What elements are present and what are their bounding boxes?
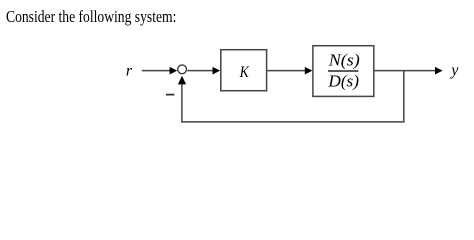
wire: input line bbox=[142, 70, 171, 72]
minus sign bbox=[166, 94, 174, 96]
summing junction bbox=[178, 65, 187, 74]
block N(s)/D(s) bbox=[313, 46, 374, 97]
wire: feedback vertical up to summing junction bbox=[181, 83, 183, 122]
wire: feedback branch vertical bbox=[403, 70, 405, 123]
svg-text:r: r bbox=[126, 63, 133, 80]
svg-text:N(s): N(s) bbox=[328, 50, 360, 69]
arrowhead into block K bbox=[213, 67, 221, 75]
fraction bar bbox=[328, 70, 358, 72]
arrowhead into summing junction bbox=[170, 67, 178, 75]
wire: plant output line bbox=[375, 70, 436, 72]
svg-text:D(s): D(s) bbox=[327, 71, 359, 90]
wire: feedback bottom run bbox=[181, 121, 404, 123]
svg-text:y: y bbox=[449, 62, 458, 79]
wire: summing junction to block K bbox=[187, 70, 213, 72]
svg-text:K: K bbox=[239, 64, 250, 81]
feedback arrowhead into summing junction bbox=[178, 76, 186, 85]
output arrowhead bbox=[435, 67, 443, 75]
block K bbox=[221, 50, 267, 91]
caption text bbox=[6, 7, 176, 27]
wire: block K to plant block bbox=[267, 70, 305, 72]
arrowhead into plant block bbox=[305, 67, 313, 75]
